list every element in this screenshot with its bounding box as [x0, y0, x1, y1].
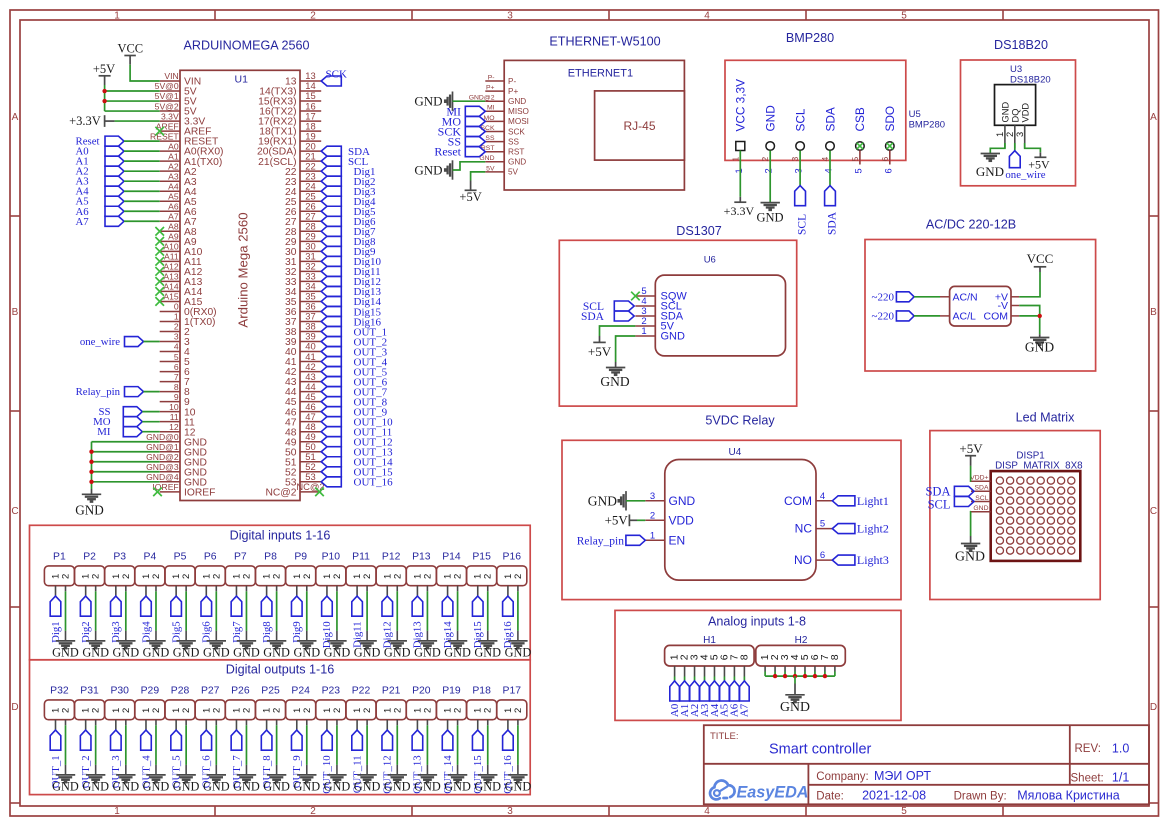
wire A3 to U1 [124, 180, 160, 182]
svg-text:6: 6 [820, 550, 825, 561]
no-connect X on U1 A12 [155, 267, 164, 276]
U1 pin 31 (right row 19) [285, 251, 321, 268]
net flag MI [97, 426, 142, 438]
net flag A0 [76, 146, 125, 158]
net flag one_wire [80, 336, 144, 348]
net flag SDA (BMP280) [825, 186, 839, 235]
U1 pin 37 (right row 25) [285, 311, 321, 328]
svg-text:3: 3 [507, 11, 513, 22]
svg-text:2: 2 [181, 574, 192, 579]
converter body [950, 286, 1011, 326]
power flag VCC (AC/DC) [1027, 251, 1054, 272]
svg-text:SDA: SDA [823, 107, 837, 131]
svg-text:P16: P16 [503, 551, 522, 562]
svg-text:2: 2 [91, 708, 102, 713]
svg-text:3: 3 [174, 332, 179, 342]
ground (P11) [354, 641, 381, 660]
wire ETHERNET1 5V to +5V [471, 172, 486, 181]
U1 pin A5 (left row 13) [160, 191, 197, 207]
P5 pin1 stub [175, 586, 177, 596]
no-connect X on U1 NC@2 [315, 488, 324, 497]
svg-text:+5V: +5V [1028, 158, 1050, 172]
power flag +5V (DS1307) [588, 336, 612, 359]
power flag +5V (DS18B20) [1028, 152, 1050, 171]
svg-text:A10: A10 [163, 242, 179, 252]
svg-text:A7: A7 [168, 211, 179, 221]
net flag A7 [76, 216, 125, 228]
svg-text:Digital outputs 1-16: Digital outputs 1-16 [226, 662, 335, 676]
net flag Dig3 [110, 596, 122, 643]
svg-text:MOSI: MOSI [508, 117, 529, 126]
net flag Dig15 [472, 596, 484, 648]
P7 pin1 stub [235, 586, 237, 596]
svg-text:9: 9 [174, 392, 179, 402]
svg-text:2: 2 [61, 708, 72, 713]
wire VCC to U1 VIN [130, 65, 160, 81]
no-connect X on U6 SQW [631, 292, 640, 301]
U1 pin 32 (right row 20) [285, 261, 321, 278]
net flag Dig1 [50, 596, 62, 643]
svg-text:GND: GND [233, 779, 260, 793]
block box 5VDC Relay [562, 440, 901, 599]
svg-text:RST: RST [508, 148, 524, 157]
svg-text:2: 2 [174, 322, 179, 332]
svg-text:4: 4 [174, 342, 179, 352]
P21 pin2 wire to ground [396, 720, 398, 775]
ETHERNET1 pin GND [469, 95, 527, 106]
U1 pin 46 (right row 34) [285, 401, 321, 418]
svg-text:5V@2: 5V@2 [155, 101, 179, 111]
U1 pin 17 (right row 5) [258, 110, 321, 127]
svg-text:5V@1: 5V@1 [155, 91, 179, 101]
svg-text:GND: GND [505, 645, 532, 659]
svg-text:2: 2 [513, 574, 524, 579]
svg-text:Arduino Mega 2560: Arduino Mega 2560 [236, 212, 251, 327]
ground (P21) [384, 775, 411, 794]
svg-text:GND: GND [233, 645, 260, 659]
svg-text:2: 2 [61, 574, 72, 579]
net flag OUT_9 [291, 730, 303, 788]
wire +5V rail [104, 85, 106, 111]
P3 pin1 stub [115, 586, 117, 596]
ETHERNET1 pin RST [481, 145, 524, 156]
U1 pin 36 (right row 24) [285, 301, 321, 318]
U4 pin 4 COM [784, 491, 832, 508]
P13 pin1 stub [416, 586, 418, 596]
svg-text:NC@2: NC@2 [265, 487, 296, 498]
svg-text:RST: RST [481, 145, 495, 152]
svg-text:Dig4: Dig4 [140, 621, 152, 643]
net flag SS [98, 406, 142, 418]
junction H2 pin 2 [773, 674, 777, 678]
svg-text:GND@0: GND@0 [146, 432, 179, 442]
U1 pin A1 (left row 9) [160, 151, 223, 167]
P18 pin2 wire to ground [487, 720, 489, 775]
U1 pin 53 (right row 41) [285, 471, 321, 488]
no-connect X on U1 A8 [155, 227, 164, 236]
net flag A0 (H1) [669, 681, 681, 717]
wire U3 DQ to one_wire [1014, 143, 1016, 151]
wire A0 to U1 [124, 150, 160, 152]
ground (P24) [293, 775, 320, 794]
svg-text:SCL: SCL [928, 497, 951, 511]
connector P22 [346, 685, 376, 719]
ground (P17) [505, 775, 532, 794]
svg-text:2: 2 [211, 708, 222, 713]
svg-text:SDA: SDA [827, 211, 839, 235]
U1 pin 50 (right row 38) [285, 441, 321, 458]
U4 pin 6 NO [794, 550, 832, 567]
net flag OUT_5 [170, 730, 182, 788]
P20 pin2 wire to ground [426, 720, 428, 775]
connector P5 [165, 551, 195, 585]
P12 pin1 stub [386, 586, 388, 596]
svg-text:P29: P29 [141, 685, 160, 696]
wire U4 VDD [637, 519, 645, 521]
rtc U6 body [655, 275, 785, 356]
svg-text:A7: A7 [76, 216, 90, 228]
connector P20 [406, 685, 436, 719]
P15 pin2 wire to ground [487, 586, 489, 641]
wire +3.3V to U1 3.3V [115, 120, 160, 122]
wire SS to U1 [142, 411, 159, 413]
svg-text:3: 3 [1015, 132, 1025, 137]
U1 pin 5V@1 (left row 3) [155, 91, 197, 107]
wire U3 GND [990, 143, 1005, 154]
svg-text:GND: GND [173, 779, 200, 793]
svg-text:A5: A5 [168, 191, 179, 201]
net flag ladder U1 pins 20-53 [321, 146, 341, 487]
svg-text:GND@2: GND@2 [146, 452, 179, 462]
svg-text:Relay_pin: Relay_pin [577, 535, 625, 547]
net flag Dig5 [170, 596, 182, 643]
svg-text:2: 2 [422, 708, 433, 713]
svg-text:VDD: VDD [1020, 103, 1030, 123]
svg-text:GND: GND [143, 645, 170, 659]
svg-text:4: 4 [820, 157, 830, 162]
svg-text:RESET: RESET [150, 131, 179, 141]
wire +5V to U1 5V@2 [105, 110, 160, 112]
U1 pin A10 (left row 18) [160, 242, 203, 258]
svg-text:2: 2 [760, 157, 770, 162]
power flag VCC [117, 42, 143, 65]
U1 pin AREF (left row 6) [156, 121, 212, 137]
U1 pin 16 (right row 4) [259, 100, 321, 117]
ground (P9) [293, 641, 320, 660]
ground (P25) [263, 775, 290, 794]
svg-text:U6: U6 [704, 255, 716, 266]
U1 pin 20 (right row 8) [257, 140, 321, 157]
svg-text:GND: GND [173, 645, 200, 659]
svg-text:SCK: SCK [326, 69, 347, 81]
net flag one_wire (DS18B20) [1005, 151, 1045, 181]
svg-text:GND: GND [414, 645, 441, 659]
P8 pin1 stub [266, 586, 268, 596]
ground (P16) [505, 641, 532, 660]
svg-text:U4: U4 [729, 447, 742, 458]
P14 pin1 stub [447, 586, 449, 596]
connector P30 [105, 685, 135, 719]
wire ETHERNET1 GND pin9 [453, 162, 486, 170]
svg-text:2: 2 [332, 708, 343, 713]
U1 pin 14 (right row 2) [259, 80, 321, 97]
U1 pin 35 (right row 23) [285, 291, 321, 308]
U1 pin GND@0 (left row 37) [146, 432, 207, 448]
H1 pin 2 [679, 654, 691, 681]
DISP1 led grid [996, 477, 1075, 554]
svg-text:Dig7: Dig7 [231, 621, 243, 643]
U1 pin A4 (left row 12) [160, 181, 197, 197]
svg-text:U1: U1 [235, 74, 249, 86]
U1 pin 6 (left row 30) [160, 362, 190, 378]
BMP280 pin 4 symbol [826, 142, 835, 151]
svg-text:2: 2 [181, 708, 192, 713]
ground (AC/DC) [1025, 334, 1054, 354]
svg-text:GND: GND [82, 779, 109, 793]
svg-text:1: 1 [174, 312, 179, 322]
wire GND rail to U1 GND@1 [92, 451, 160, 453]
frame column ticks bottom [215, 806, 1003, 816]
svg-text:GND: GND [505, 779, 532, 793]
wire A1 to U1 [124, 160, 160, 162]
U4 pin 3 GND [645, 491, 695, 508]
connector P25 [256, 685, 286, 719]
svg-text:Led Matrix: Led Matrix [1016, 411, 1075, 425]
svg-text:P6: P6 [204, 551, 217, 562]
svg-text:Dig6: Dig6 [201, 621, 213, 643]
BMP280 pin 6 stub [889, 150, 891, 164]
svg-text:1: 1 [734, 168, 744, 173]
wire A6 to U1 [124, 210, 160, 212]
connector P8 [256, 551, 286, 585]
U6 pin SCL [635, 296, 682, 313]
svg-text:P+: P+ [486, 85, 495, 92]
U1 pin 7 (left row 31) [160, 372, 190, 388]
svg-text:1: 1 [114, 806, 120, 817]
svg-text:SS: SS [485, 135, 495, 142]
wire GND rail under U1 [91, 442, 93, 489]
svg-text:A0: A0 [168, 141, 179, 151]
svg-text:P12: P12 [382, 551, 401, 562]
H2 pin 6 [809, 654, 821, 676]
converter pin AC/L [940, 311, 976, 323]
svg-text:P22: P22 [352, 685, 371, 696]
svg-text:A8: A8 [168, 222, 179, 232]
wire +5V to U1 5V@0 [105, 90, 160, 92]
wire U6 GND to ground [616, 336, 636, 362]
svg-text:A11: A11 [164, 252, 179, 262]
U1 pin A12 (left row 20) [160, 262, 203, 278]
svg-text:B: B [1150, 307, 1157, 318]
svg-text:P-: P- [488, 74, 495, 81]
block box Digital inputs 1-16 [30, 525, 531, 660]
svg-text:P9: P9 [294, 551, 307, 562]
svg-text:GND: GND [588, 494, 617, 509]
svg-text:Dig9: Dig9 [291, 621, 303, 643]
ground (P10) [324, 641, 351, 660]
svg-text:5: 5 [901, 806, 907, 817]
connector P21 [376, 685, 406, 719]
wire ~220 to AC/N [914, 296, 940, 298]
net flag A6 (H1) [729, 681, 741, 717]
svg-text:CSB: CSB [853, 107, 867, 131]
U1 pin 42 (right row 30) [285, 361, 321, 378]
ground (P6) [203, 641, 230, 660]
svg-text:2: 2 [392, 574, 403, 579]
P30 pin2 wire to ground [125, 720, 127, 775]
junction H2 pin 3 [783, 674, 787, 678]
svg-text:VCC 3,3V: VCC 3,3V [734, 79, 748, 132]
svg-text:2: 2 [121, 708, 132, 713]
svg-text:GND: GND [474, 645, 501, 659]
net flag OUT_13 [412, 730, 424, 794]
svg-text:2: 2 [310, 806, 316, 817]
U1 pin 21 (right row 9) [258, 150, 321, 167]
net flag Dig2 [80, 596, 92, 643]
svg-text:P-: P- [508, 77, 516, 86]
P15 pin1 stub [477, 586, 479, 596]
wire BMP280 pin2 to GND [769, 151, 771, 203]
U1 pin GND@4 (left row 41) [146, 472, 207, 488]
svg-text:11: 11 [170, 412, 179, 422]
H2 pin 4 [789, 654, 801, 676]
svg-text:1: 1 [730, 157, 740, 162]
svg-text:P32: P32 [50, 685, 69, 696]
U1 pin 45 (right row 33) [285, 391, 321, 408]
ETHERNET1 pin GND [479, 155, 526, 166]
junction H2 pin 7 [823, 674, 827, 678]
U1 pin 4 (left row 28) [160, 342, 190, 358]
svg-text:Light2: Light2 [857, 522, 889, 536]
net flag MO [93, 416, 142, 428]
block box AC/DC [865, 240, 1096, 372]
svg-text:Light3: Light3 [857, 553, 889, 567]
ground (P27) [203, 775, 230, 794]
svg-text:Reset: Reset [434, 145, 461, 159]
svg-text:2: 2 [764, 168, 774, 173]
svg-text:GND: GND [263, 779, 290, 793]
svg-text:C: C [11, 506, 18, 517]
U1 pin 5V@2 (left row 4) [155, 101, 197, 117]
svg-text:GND: GND [112, 779, 139, 793]
connector P16 [497, 551, 527, 585]
net flag ladder SCL SDA (DS1307) [614, 301, 634, 321]
U1 pin 25 (right row 13) [285, 190, 321, 207]
net flag OUT_10 [321, 730, 333, 794]
ground (left) at ETHERNET1 GND@2 [414, 92, 452, 111]
connector P3 [105, 551, 135, 585]
U1 pin 30 (right row 18) [285, 241, 321, 258]
net flag OUT_7 [231, 730, 243, 788]
svg-text:GND: GND [414, 94, 442, 109]
wire COM to node [1019, 315, 1039, 317]
svg-text:VDD: VDD [669, 513, 695, 527]
no-connect X on U1 A13 [155, 277, 164, 286]
U1 pin 11 (left row 35) [160, 412, 195, 428]
title block frame [704, 725, 1149, 804]
wire GND rail to U1 GND@2 [92, 461, 160, 463]
svg-text:3: 3 [790, 157, 800, 162]
svg-text:ARDUINOMEGA 2560: ARDUINOMEGA 2560 [184, 39, 310, 53]
U1 pin GND@2 (left row 39) [146, 452, 207, 468]
net flag A1 (H1) [679, 681, 691, 717]
svg-text:P15: P15 [472, 551, 491, 562]
svg-text:2: 2 [483, 574, 494, 579]
U3 pin 3 [1024, 125, 1026, 148]
wire U6 5V to +5V [600, 326, 636, 336]
svg-text:6: 6 [883, 168, 893, 173]
svg-text:P4: P4 [144, 551, 157, 562]
connector H2 body [756, 645, 846, 666]
U3 refdes [1010, 64, 1051, 86]
U1 pin 10 (left row 34) [160, 402, 196, 418]
module ETHERNET1 body [504, 60, 684, 190]
P11 pin2 wire to ground [366, 586, 368, 641]
net flag Dig9 [291, 596, 303, 643]
svg-text:NO: NO [794, 553, 812, 567]
U4 pin 1 EN [645, 530, 685, 547]
ground (P8) [263, 641, 290, 660]
P32 pin1 stub [55, 720, 57, 730]
P26 pin1 stub [235, 720, 237, 730]
svg-text:GND: GND [293, 645, 320, 659]
svg-text:+5V: +5V [605, 513, 629, 528]
svg-text:VIN: VIN [164, 71, 178, 81]
P29 pin1 stub [145, 720, 147, 730]
P26 pin2 wire to ground [245, 720, 247, 775]
P4 pin2 wire to ground [155, 586, 157, 641]
svg-text:GND: GND [474, 779, 501, 793]
ground (P30) [112, 775, 139, 794]
P2 pin1 stub [85, 586, 87, 596]
svg-text:EN: EN [669, 533, 686, 547]
U1 pin VIN (left row 1) [160, 71, 201, 87]
svg-text:2: 2 [422, 574, 433, 579]
connector P19 [436, 685, 466, 719]
P17 pin2 wire to ground [517, 720, 519, 775]
svg-text:GND: GND [354, 779, 381, 793]
frame row ticks right [1149, 216, 1159, 803]
svg-text:Dig8: Dig8 [261, 621, 273, 643]
U1 pin A15 (left row 23) [160, 292, 203, 308]
ground (P19) [444, 775, 471, 794]
svg-text:GND: GND [52, 645, 79, 659]
block box DS1307 [559, 240, 796, 406]
svg-text:SS: SS [508, 137, 519, 146]
P1 pin2 wire to ground [65, 586, 67, 641]
wire GND rail to U1 GND@4 [92, 481, 160, 483]
svg-text:ETHERNET1: ETHERNET1 [568, 68, 633, 80]
P31 pin1 stub [85, 720, 87, 730]
svg-text:2: 2 [272, 708, 283, 713]
svg-text:U3: U3 [1010, 64, 1022, 75]
ground (BMP280) [756, 203, 783, 225]
U1 pin GND@1 (left row 38) [146, 442, 207, 458]
DISP1 pin SCL [971, 495, 991, 502]
U1 pin 48 (right row 36) [285, 421, 321, 438]
ground (DS1307) [600, 362, 629, 389]
U1 pin 12 (left row 36) [160, 422, 196, 438]
svg-text:P23: P23 [322, 685, 341, 696]
U1 pin A0 (left row 8) [160, 141, 224, 157]
svg-text:TITLE:: TITLE: [710, 731, 739, 742]
svg-text:MI: MI [97, 426, 111, 438]
junction GND rail at GND@2 [89, 460, 93, 464]
U1 pin 2 (left row 26) [160, 322, 190, 338]
net flag Dig6 [201, 596, 213, 643]
H1 pin 8 [738, 654, 750, 681]
wire MO to U1 [142, 421, 159, 423]
